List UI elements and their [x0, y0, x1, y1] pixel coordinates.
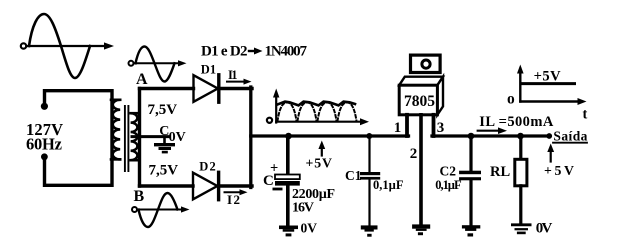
svg-text:1: 1: [394, 120, 402, 136]
svg-text:3: 3: [437, 120, 445, 136]
svg-text:7,5V: 7,5V: [148, 102, 178, 118]
svg-text:0V: 0V: [169, 130, 186, 145]
svg-text:o: o: [507, 90, 515, 107]
svg-text:I1: I1: [228, 68, 238, 82]
svg-text:t: t: [583, 106, 588, 122]
svg-text:0,1µF: 0,1µF: [435, 178, 462, 192]
svg-text:0,1µF: 0,1µF: [373, 178, 404, 192]
svg-text:B: B: [134, 188, 145, 205]
svg-text:60Hz: 60Hz: [26, 134, 62, 153]
svg-text:D1: D1: [201, 62, 216, 76]
svg-text:RL: RL: [490, 164, 510, 180]
svg-text:C1: C1: [345, 168, 362, 183]
svg-text:7805: 7805: [404, 93, 435, 110]
svg-text:1N4007: 1N4007: [265, 44, 308, 60]
svg-text:2: 2: [410, 146, 418, 162]
svg-text:+: +: [270, 161, 278, 177]
svg-text:D1 e D2: D1 e D2: [201, 44, 248, 60]
svg-text:C2: C2: [440, 164, 457, 179]
svg-text:I2: I2: [227, 192, 240, 207]
svg-text:IL =500mA: IL =500mA: [479, 114, 554, 130]
svg-text:0V: 0V: [536, 221, 553, 237]
svg-text:D2: D2: [199, 159, 216, 173]
svg-text:Saída: Saída: [553, 129, 587, 144]
svg-text:16V: 16V: [292, 201, 314, 216]
svg-text:+5V: +5V: [306, 156, 333, 171]
svg-text:+5V: +5V: [534, 69, 562, 85]
svg-text:0V: 0V: [301, 221, 318, 236]
svg-text:7,5V: 7,5V: [149, 163, 179, 179]
svg-text:A: A: [136, 71, 148, 88]
svg-text:+5V: +5V: [544, 163, 574, 178]
